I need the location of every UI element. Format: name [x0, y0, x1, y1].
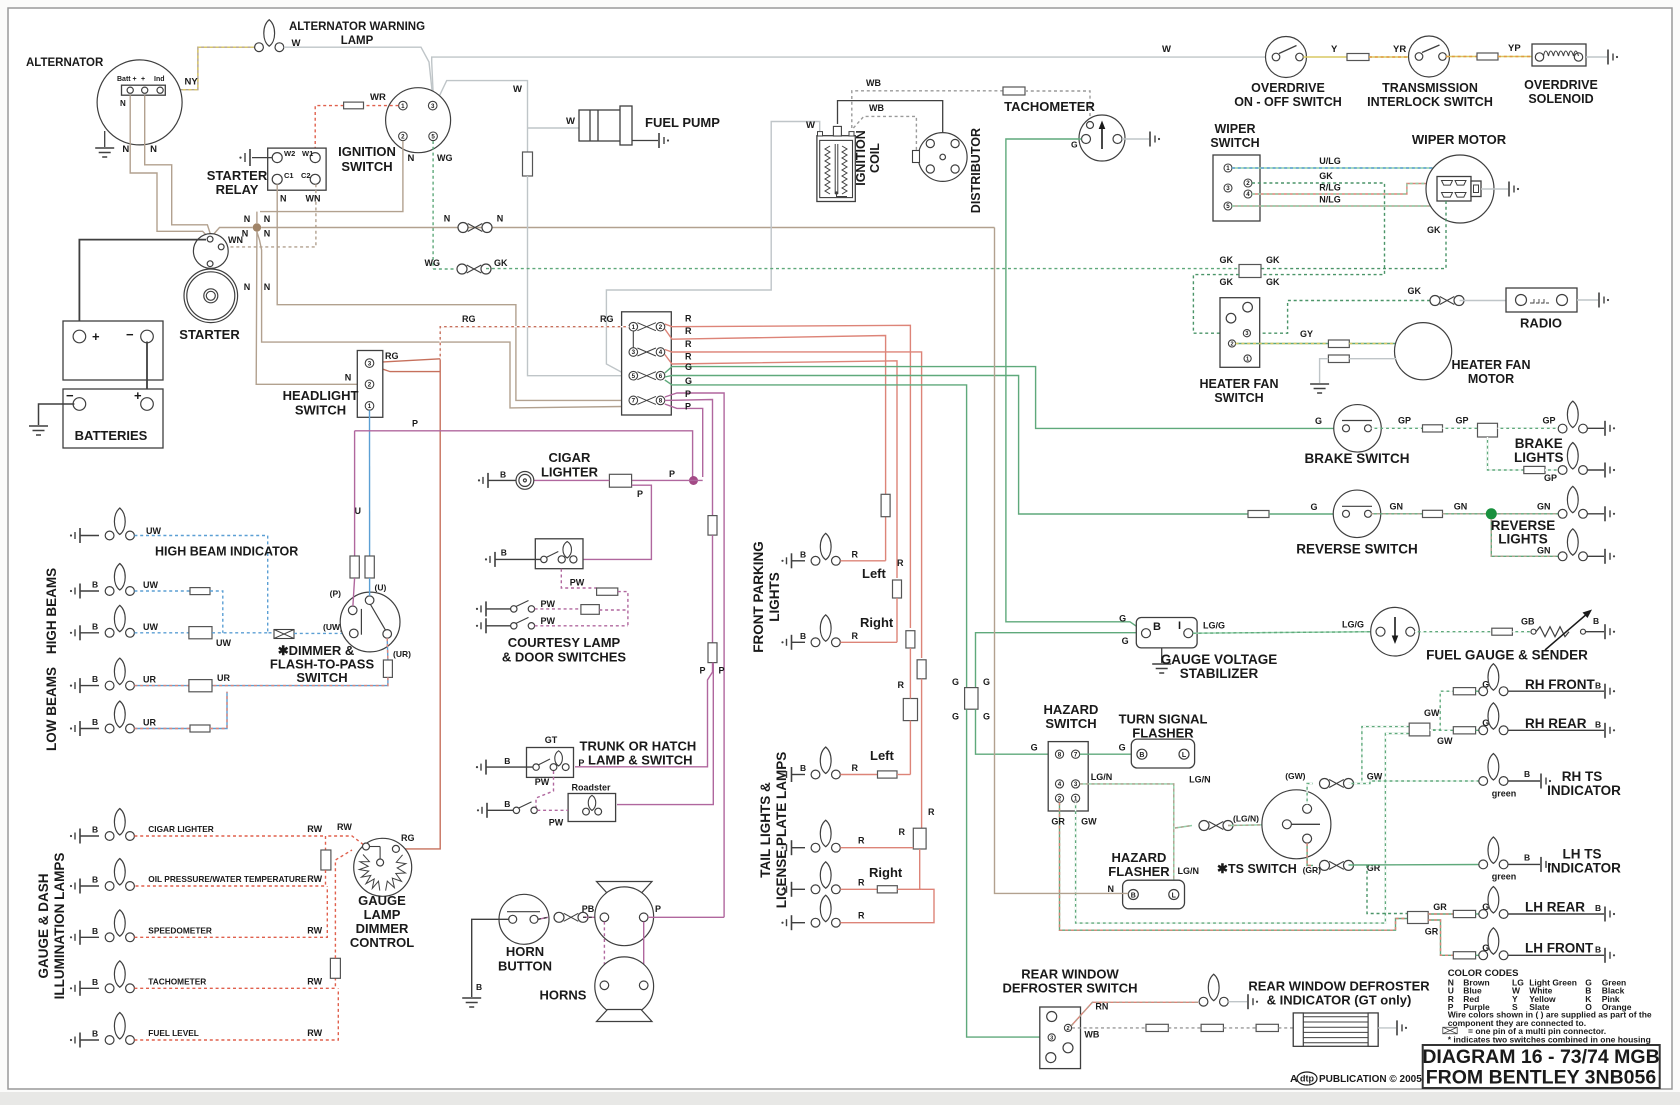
fuse WB [1003, 87, 1025, 95]
wire WB coil to tach fuse [852, 91, 1003, 128]
wire GK long from ignition WG bowtie [433, 268, 455, 270]
svg-text:WB: WB [1084, 1030, 1099, 1040]
svg-text:GK: GK [1319, 171, 1333, 181]
wire P horn1 to horn2 [643, 922, 645, 981]
svg-text:3: 3 [431, 103, 435, 110]
wire PB horn button to horns [538, 917, 548, 919]
brake switch [1334, 405, 1382, 453]
svg-text:RG: RG [462, 314, 476, 324]
wire UR dimmer to low beams [386, 638, 389, 660]
wire R trunk tail left continue [909, 648, 911, 699]
tachometer ground wire [1122, 138, 1149, 140]
wire P down to dimmer fuse [354, 431, 356, 560]
svg-text:2: 2 [1246, 180, 1250, 187]
svg-text:R: R [858, 877, 865, 887]
junction dot P [689, 476, 698, 485]
wire GW bowtie to RH TS indicator [1349, 781, 1481, 784]
svg-text:Roadster: Roadster [571, 783, 611, 793]
svg-text:5: 5 [1226, 203, 1230, 210]
wire GP connector to brake lamp 2 [1488, 437, 1524, 470]
wire U headlight 1 down to dimmer fuse [369, 410, 371, 560]
svg-text:R: R [685, 339, 692, 349]
wire G hazard 7 to flasher B [1080, 753, 1137, 755]
connector GP [1478, 423, 1498, 437]
wire WN starter relay C2 to solenoid [226, 184, 316, 247]
svg-text:LG/N: LG/N [1091, 772, 1113, 782]
fuse WB 2 [1201, 1024, 1223, 1031]
svg-text:REAR WINDOW: REAR WINDOW [1021, 967, 1119, 982]
svg-text:P: P [699, 666, 705, 676]
connector R license [913, 828, 926, 849]
fuse R tail left trunk [906, 631, 915, 648]
svg-text:LAMP: LAMP [364, 907, 401, 922]
svg-text:WN: WN [228, 235, 243, 245]
svg-text:N: N [444, 214, 451, 224]
svg-text:−: − [126, 327, 134, 342]
wire W long top to overdrive switch [432, 57, 1272, 101]
svg-text:FUEL LEVEL: FUEL LEVEL [148, 1028, 199, 1038]
alternator warning lamp [255, 20, 284, 52]
cigar lighter [516, 472, 534, 490]
wire UW high beam 1 [134, 590, 190, 592]
wire PW trunk lamp to roadster switch [536, 771, 554, 810]
svg-text:B: B [476, 982, 482, 992]
tail right lamp [781, 882, 791, 897]
svg-text:WIPER MOTOR: WIPER MOTOR [1412, 132, 1507, 147]
wire W ignition 3 to vertical feed [436, 81, 528, 152]
svg-text:N: N [264, 214, 271, 224]
svg-text:SOLENOID: SOLENOID [1528, 92, 1593, 106]
svg-text:N: N [280, 194, 287, 204]
svg-text:GN: GN [1390, 502, 1404, 512]
low beam lamp 2 [70, 721, 80, 736]
svg-text:FROM BENTLEY 3NB056: FROM BENTLEY 3NB056 [1426, 1067, 1657, 1089]
svg-text:UW: UW [216, 638, 231, 648]
svg-text:G: G [1119, 614, 1126, 624]
svg-text:N: N [244, 214, 251, 224]
fuse W vertical [523, 152, 533, 176]
connector high beam [189, 627, 212, 639]
svg-text:YP: YP [1508, 43, 1521, 54]
wire LG/N to TS switch [1175, 826, 1192, 829]
svg-text:B: B [1593, 616, 1599, 626]
svg-text:2: 2 [659, 324, 663, 331]
svg-text:B: B [800, 549, 806, 559]
wire PB horn1 to horn2 [603, 922, 605, 981]
svg-text:1: 1 [368, 403, 372, 410]
fuse U dimmer [365, 556, 374, 578]
svg-text:DIMMER: DIMMER [356, 921, 409, 936]
svg-text:B: B [1139, 752, 1144, 759]
svg-text:B: B [1595, 681, 1601, 691]
fuse Y [1347, 54, 1369, 61]
svg-text:FUEL GAUGE & SENDER: FUEL GAUGE & SENDER [1426, 648, 1588, 663]
wire GR connector to LH rear fuse [1428, 913, 1453, 915]
svg-text:GK: GK [1220, 277, 1234, 287]
fuse G reverse feed [1248, 511, 1269, 518]
wire N/LG wiper switch 5 to motor [1232, 200, 1455, 206]
fuse cigar lighter [609, 474, 631, 487]
svg-text:B: B [92, 825, 98, 835]
fuse G LH rear [1453, 910, 1475, 917]
svg-text:LG/G: LG/G [1203, 621, 1225, 631]
alternator [97, 60, 182, 145]
svg-text:W: W [566, 116, 575, 127]
alternator terminal box [122, 85, 166, 95]
fuse UR vertical [383, 660, 392, 677]
svg-text:2: 2 [368, 382, 372, 389]
svg-text:PW: PW [540, 616, 555, 626]
radio [1460, 300, 1507, 302]
fuse P trunk upper [708, 516, 717, 536]
svg-text:GK: GK [1266, 277, 1280, 287]
wire R connector to front parking right trunk [665, 355, 897, 579]
wire G connector to brake switch [665, 367, 1334, 429]
svg-text:COIL: COIL [868, 143, 882, 173]
fuse G RH rear [1453, 727, 1475, 734]
svg-text:RG: RG [385, 351, 399, 361]
svg-text:N: N [264, 229, 271, 239]
svg-text:ALTERNATOR WARNING: ALTERNATOR WARNING [289, 21, 425, 33]
svg-text:RH REAR: RH REAR [1525, 716, 1587, 731]
wire N ignition 2 down to junction riser [260, 141, 403, 212]
svg-text:& DOOR SWITCHES: & DOOR SWITCHES [502, 650, 627, 665]
svg-text:R: R [897, 558, 904, 568]
svg-text:UW: UW [143, 580, 158, 590]
connector GK 4-way [1239, 265, 1261, 278]
svg-text:DEFROSTER SWITCH: DEFROSTER SWITCH [1002, 981, 1137, 996]
fuse WB 1 [1146, 1024, 1168, 1031]
svg-text:Left: Left [862, 566, 887, 581]
connector G inline [965, 688, 978, 710]
brake lamp 1 [1558, 401, 1587, 433]
wire P connector pin8 to lamps trunk [665, 400, 713, 516]
svg-text:WG: WG [425, 258, 441, 268]
connector PB inline [554, 912, 588, 922]
stabilizer ground [1161, 648, 1163, 663]
svg-text:HORN: HORN [506, 944, 544, 959]
svg-text:B: B [92, 926, 98, 936]
fuse door switch [581, 605, 599, 615]
svg-text:B: B [1131, 893, 1136, 900]
LH front lamp [1476, 954, 1484, 956]
svg-text:Right: Right [860, 615, 894, 630]
svg-text:G: G [1031, 743, 1038, 753]
wire UR low beam 1 [134, 685, 189, 687]
svg-text:* indicates two switches combi: * indicates two switches combined in one… [1448, 1035, 1651, 1045]
svg-text:B: B [800, 763, 806, 773]
connector R tail left [903, 699, 917, 721]
svg-text:FLASHER: FLASHER [1132, 726, 1194, 741]
svg-text:P: P [655, 904, 661, 914]
wire RG headlight 3 upper [374, 359, 440, 363]
svg-text:OVERDRIVE: OVERDRIVE [1251, 81, 1325, 95]
wire P connector pin8 to horn trunk [665, 393, 724, 917]
svg-text:P: P [719, 666, 725, 676]
svg-text:GW: GW [1367, 772, 1383, 782]
wire G connector down to defroster [967, 709, 1048, 1037]
wire GP fuse to connector [1443, 427, 1478, 429]
svg-text:green: green [1492, 872, 1517, 882]
fuse GN [1423, 510, 1443, 517]
svg-text:B: B [92, 1029, 98, 1039]
svg-text:RG: RG [600, 314, 614, 324]
headlight switch [357, 351, 383, 418]
svg-text:G: G [1122, 636, 1129, 646]
svg-text:YR: YR [1393, 44, 1406, 55]
horn button [499, 894, 549, 944]
svg-text:UR: UR [143, 718, 156, 728]
alternator ground [104, 131, 106, 147]
svg-text:CIGAR: CIGAR [549, 450, 592, 465]
TS switch [1262, 790, 1331, 859]
wire GK heater fan 3 to radio [1251, 301, 1434, 334]
svg-text:R: R [685, 326, 692, 336]
overdrive on-off switch [1266, 37, 1307, 78]
connector WG GK inline [457, 264, 491, 274]
wire GK bowtie to GK connector [486, 268, 1239, 270]
svg-text:COURTESY LAMP: COURTESY LAMP [508, 635, 621, 650]
svg-text:G: G [1119, 743, 1126, 753]
fuse R tail right trunk [917, 660, 926, 679]
defroster element [1293, 1013, 1378, 1046]
svg-text:RH TS: RH TS [1562, 769, 1603, 784]
svg-text:(P): (P) [330, 589, 342, 599]
svg-text:LG/N: LG/N [1189, 775, 1211, 785]
svg-text:TRANSMISSION: TRANSMISSION [1382, 81, 1478, 95]
gauge voltage stabilizer [1136, 618, 1197, 648]
svg-text:STARTER: STARTER [179, 327, 240, 342]
RH rear lamp [1476, 729, 1484, 731]
reverse switch [1333, 490, 1381, 538]
wire N junction to solenoid [213, 228, 253, 236]
svg-text:1: 1 [1246, 357, 1249, 363]
wire RW speedometer [134, 886, 327, 937]
svg-text:INDICATOR: INDICATOR [1547, 861, 1621, 876]
fuse R front left trunk [881, 494, 890, 516]
svg-text:HIGH BEAM INDICATOR: HIGH BEAM INDICATOR [155, 545, 298, 559]
svg-text:GN: GN [1537, 502, 1551, 512]
svg-text:LOW BEAMS: LOW BEAMS [44, 667, 59, 751]
wire P connector pin8 to junction dot [665, 404, 703, 477]
horn 1 [597, 882, 653, 894]
wire GK wiper motor to connector [1261, 201, 1446, 269]
svg-text:R: R [852, 763, 859, 773]
ignition coil [817, 136, 855, 202]
fuel gauge [1371, 607, 1420, 656]
ignition switch [386, 88, 451, 153]
wire W to fuel pump [528, 127, 580, 129]
svg-text:B: B [1153, 621, 1161, 633]
reverse lamp 1 [1558, 486, 1587, 518]
svg-text:HIGH BEAMS: HIGH BEAMS [44, 568, 59, 654]
svg-text:RW: RW [307, 1028, 322, 1038]
svg-text:N: N [345, 373, 352, 383]
svg-text:L: L [1172, 893, 1177, 900]
svg-text:B: B [800, 631, 806, 641]
illumination lamp CIGAR LIGHTER [70, 829, 80, 844]
wire GW connector to RH front fuse [1430, 691, 1453, 730]
svg-text:2: 2 [1058, 796, 1062, 803]
svg-text:(LG/N): (LG/N) [1233, 814, 1259, 824]
svg-text:INTERLOCK SWITCH: INTERLOCK SWITCH [1367, 95, 1493, 109]
turn signal flasher [1131, 739, 1194, 768]
battery link [146, 342, 148, 400]
svg-text:FRONT PARKING: FRONT PARKING [751, 541, 766, 653]
svg-text:U/LG: U/LG [1319, 156, 1341, 166]
wire U/LG wiper switch 1 to motor [1232, 168, 1460, 176]
fuse P trunk lower [708, 643, 717, 663]
wire P dot to cigar fuse [632, 479, 703, 481]
svg-text:W2: W2 [284, 149, 295, 158]
high beam lamp 1 [70, 584, 80, 599]
wire W warning lamp to ignition 3 [284, 47, 433, 96]
svg-text:UW: UW [146, 526, 161, 536]
junction dot GN [1486, 508, 1497, 519]
svg-text:R: R [858, 911, 865, 921]
svg-text:R: R [685, 314, 692, 324]
svg-text:BRAKE SWITCH: BRAKE SWITCH [1305, 451, 1410, 466]
fuel pump [579, 110, 624, 141]
wire P fuse to cigar lighter [534, 479, 610, 481]
svg-text:R: R [928, 807, 935, 817]
wire N starter relay C1 to connector pin 7 [277, 184, 622, 400]
svg-text:GB: GB [1521, 617, 1535, 627]
svg-text:N: N [408, 153, 415, 164]
svg-text:P: P [685, 389, 691, 399]
svg-text:PW: PW [540, 599, 555, 609]
fuse P dimmer [350, 556, 359, 578]
wire G connector to accessories trunk [665, 380, 967, 688]
wire GW branch to RH connector [1362, 727, 1409, 784]
connector low beam [189, 680, 212, 692]
svg-text:GW: GW [1424, 708, 1440, 718]
svg-text:NY: NY [185, 77, 199, 88]
distributor [918, 133, 967, 182]
wire G connector to hazard 8 [976, 709, 1055, 754]
svg-text:+: + [92, 329, 100, 344]
wire GK wiper switch 2 loop [1252, 183, 1385, 275]
brake lamp 2 [1558, 443, 1587, 475]
svg-text:G: G [685, 362, 692, 372]
svg-text:W: W [513, 84, 522, 95]
svg-text:GK: GK [1220, 255, 1234, 265]
svg-text:N: N [150, 144, 157, 155]
wire G trunk to stabilizer B [976, 633, 1142, 688]
svg-text:HORNS: HORNS [540, 988, 587, 1003]
wire UW indicator to dimmer junction [134, 536, 267, 633]
svg-text:N: N [497, 214, 504, 224]
svg-text:LG/G: LG/G [1342, 620, 1364, 630]
wire WB coil to distributor [853, 116, 916, 150]
wire W down to connector pin 5 [528, 176, 623, 376]
svg-text:W1: W1 [302, 149, 313, 158]
svg-text:GK: GK [494, 258, 508, 268]
connector main lighting 8-pin [622, 312, 672, 415]
svg-text:WG: WG [437, 153, 453, 163]
svg-text:SWITCH: SWITCH [1210, 136, 1259, 150]
battery 2 [63, 389, 163, 448]
svg-text:Right: Right [869, 865, 903, 880]
svg-text:TACHOMETER: TACHOMETER [1004, 99, 1095, 114]
svg-text:TURN SIGNAL: TURN SIGNAL [1119, 712, 1208, 727]
hazard switch [1048, 742, 1088, 811]
wiper motor ground [1481, 188, 1508, 190]
svg-text:WR: WR [370, 92, 386, 103]
wire YR fuse to interlock switch [1369, 56, 1415, 58]
svg-text:Ind: Ind [154, 76, 165, 83]
heater fan switch [1220, 298, 1260, 368]
wire P fuse to roadster lamp [617, 663, 713, 805]
svg-text:G: G [1310, 502, 1317, 512]
svg-text:(U): (U) [375, 583, 387, 593]
svg-text:LIGHTS: LIGHTS [767, 572, 782, 622]
connector GK radio inline [1430, 296, 1464, 306]
fuse RW vertical [325, 836, 327, 850]
svg-text:dtp: dtp [1300, 1074, 1314, 1084]
svg-text:MOTOR: MOTOR [1468, 372, 1514, 386]
license lamp right [781, 915, 791, 930]
courtesy lamp ground [495, 558, 541, 560]
tachometer [1079, 115, 1125, 161]
svg-text:LAMP & SWITCH: LAMP & SWITCH [588, 753, 692, 768]
svg-text:✱: ✱ [1217, 861, 1228, 876]
svg-text:3: 3 [632, 349, 636, 356]
LH TS indicator lamp [1479, 837, 1508, 869]
svg-text:3: 3 [1074, 781, 1078, 788]
svg-text:LIGHTS: LIGHTS [1498, 532, 1548, 547]
svg-text:green: green [1492, 789, 1517, 799]
connector N inline [458, 223, 492, 233]
wire coil to distributor HT [838, 101, 943, 152]
svg-text:GP: GP [1455, 416, 1468, 426]
wire WG ignition 5 down to bowtie [432, 141, 434, 269]
svg-text:SWITCH: SWITCH [295, 403, 346, 418]
fuel sender resistor [1512, 631, 1533, 633]
fuse G LH front [1453, 952, 1475, 959]
wire GR connector to LH front fuse [1428, 920, 1453, 955]
wire GK connector to heater fan switch 3 [1193, 275, 1242, 334]
svg-text:RW: RW [307, 976, 322, 986]
svg-text:GR: GR [1051, 817, 1065, 827]
front parking right lamp [781, 635, 791, 650]
connector UW inline x [274, 630, 294, 639]
svg-text:REVERSE SWITCH: REVERSE SWITCH [1296, 541, 1418, 556]
svg-text:GAUGE VOLTAGE: GAUGE VOLTAGE [1161, 652, 1278, 667]
fuse WR [344, 102, 364, 109]
svg-text:B: B [1595, 720, 1601, 730]
svg-text:HAZARD: HAZARD [1044, 702, 1099, 717]
battery 1 [63, 321, 163, 380]
wire B battery to starter [79, 240, 206, 332]
svg-text:GK: GK [1266, 255, 1280, 265]
gauge lamp dimmer control [354, 838, 412, 896]
svg-text:W: W [1162, 44, 1171, 55]
svg-text:1: 1 [1074, 796, 1078, 803]
svg-text:GR: GR [1433, 902, 1447, 912]
defroster indicator lamp [1199, 974, 1228, 1006]
svg-text:WN: WN [306, 194, 321, 204]
svg-text:ILLUMINATION LAMPS: ILLUMINATION LAMPS [52, 853, 67, 1000]
svg-text:Y: Y [1331, 44, 1338, 55]
illumination lamp SPEEDOMETER [70, 930, 80, 945]
fuse GB [1492, 628, 1513, 635]
wire W to ignition coil [606, 122, 819, 374]
svg-text:1: 1 [401, 103, 405, 110]
heater motor ground [1320, 359, 1329, 383]
wire UW high beam 2 [134, 632, 189, 634]
wire GR bowtie to LH TS indicator [1349, 864, 1485, 867]
